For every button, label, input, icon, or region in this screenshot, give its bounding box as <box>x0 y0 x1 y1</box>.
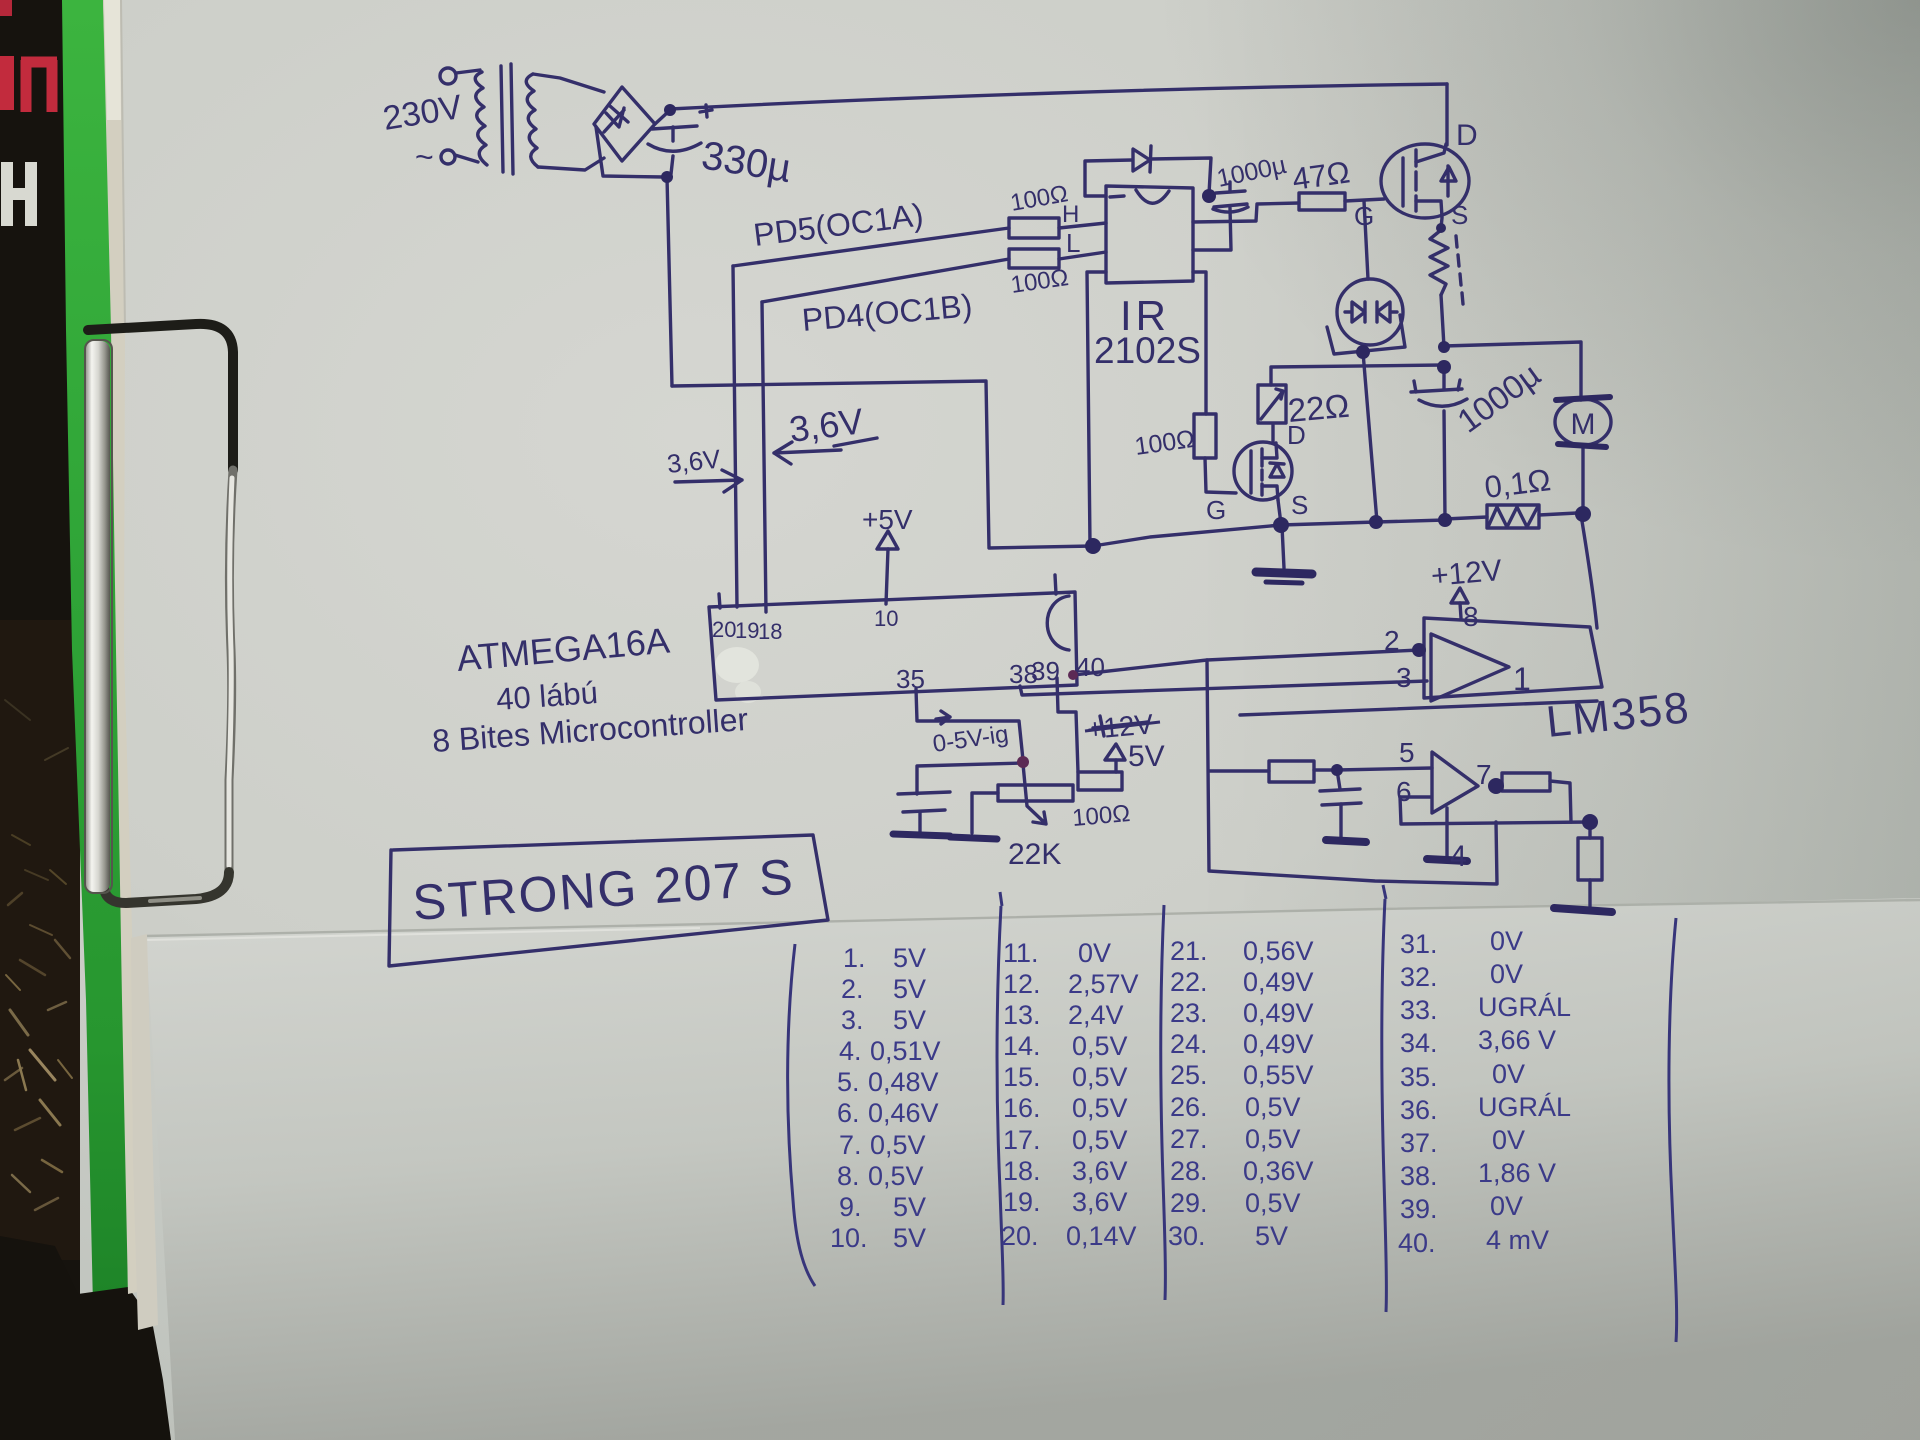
svg-text:9.: 9. <box>839 1192 862 1222</box>
svg-text:1.: 1. <box>843 943 866 973</box>
svg-text:5V: 5V <box>893 1223 926 1253</box>
svg-text:3.: 3. <box>841 1005 864 1035</box>
svg-text:1: 1 <box>1513 661 1531 697</box>
svg-text:4 mV: 4 mV <box>1486 1225 1549 1255</box>
svg-text:36.: 36. <box>1400 1095 1438 1125</box>
svg-text:34.: 34. <box>1400 1028 1438 1058</box>
svg-text:0V: 0V <box>1492 1125 1525 1155</box>
svg-text:100Ω: 100Ω <box>1071 800 1131 832</box>
svg-text:39: 39 <box>1031 656 1060 686</box>
svg-text:3,66 V: 3,66 V <box>1478 1025 1556 1055</box>
svg-text:3,6V: 3,6V <box>1072 1187 1128 1217</box>
svg-text:40: 40 <box>1076 652 1105 682</box>
svg-text:28.: 28. <box>1170 1156 1208 1186</box>
svg-text:0,49V: 0,49V <box>1243 998 1314 1028</box>
svg-text:21.: 21. <box>1170 936 1208 966</box>
svg-text:2: 2 <box>1384 625 1400 656</box>
svg-text:2102S: 2102S <box>1094 330 1201 371</box>
svg-text:H: H <box>1062 201 1079 228</box>
svg-text:11.: 11. <box>1003 938 1039 968</box>
svg-text:31.: 31. <box>1400 929 1438 959</box>
svg-text:5.: 5. <box>837 1067 860 1097</box>
svg-text:0V: 0V <box>1490 959 1523 989</box>
svg-text:3,6V: 3,6V <box>1072 1156 1128 1186</box>
svg-text:5V: 5V <box>893 943 926 973</box>
svg-text:2,57V: 2,57V <box>1068 969 1139 999</box>
svg-text:18.: 18. <box>1003 1156 1041 1186</box>
svg-text:5V: 5V <box>893 974 926 1004</box>
svg-text:4.: 4. <box>839 1036 862 1066</box>
svg-text:6.: 6. <box>837 1098 860 1128</box>
svg-text:0,5V: 0,5V <box>1072 1125 1128 1155</box>
svg-text:5V: 5V <box>1255 1221 1288 1251</box>
svg-text:0,36V: 0,36V <box>1243 1156 1314 1186</box>
svg-text:35: 35 <box>896 664 925 694</box>
svg-text:40.: 40. <box>1398 1228 1436 1258</box>
svg-text:0,5V: 0,5V <box>1245 1092 1301 1122</box>
svg-text:+5V: +5V <box>862 504 913 535</box>
svg-text:0,14V: 0,14V <box>1066 1221 1137 1251</box>
svg-text:14.: 14. <box>1003 1031 1041 1061</box>
svg-text:G: G <box>1354 201 1374 231</box>
svg-text:12.: 12. <box>1003 969 1041 999</box>
svg-text:39.: 39. <box>1400 1194 1438 1224</box>
svg-text:0,5V: 0,5V <box>1072 1093 1128 1123</box>
svg-text:G: G <box>1206 495 1226 525</box>
svg-text:0,49V: 0,49V <box>1243 967 1314 997</box>
svg-text:+12V: +12V <box>1430 554 1504 593</box>
svg-text:0,5V: 0,5V <box>1072 1062 1128 1092</box>
svg-text:UGRÁL: UGRÁL <box>1478 1092 1571 1122</box>
svg-text:0,56V: 0,56V <box>1243 936 1314 966</box>
svg-text:M: M <box>1571 408 1596 441</box>
svg-text:0,55V: 0,55V <box>1243 1060 1314 1090</box>
svg-text:0,51V: 0,51V <box>870 1036 941 1066</box>
svg-text:L: L <box>1066 228 1080 258</box>
svg-text:3: 3 <box>1396 662 1412 693</box>
svg-text:D: D <box>1456 119 1478 152</box>
svg-text:5V: 5V <box>1128 740 1165 773</box>
svg-text:3,6V: 3,6V <box>665 443 722 478</box>
svg-text:~: ~ <box>415 139 434 175</box>
svg-text:S: S <box>1451 200 1468 230</box>
svg-text:0V: 0V <box>1078 938 1111 968</box>
svg-text:0,5V: 0,5V <box>1072 1031 1128 1061</box>
svg-text:10.: 10. <box>830 1223 868 1253</box>
svg-text:0,5V: 0,5V <box>870 1130 926 1160</box>
svg-text:18: 18 <box>758 619 782 644</box>
svg-text:6: 6 <box>1396 776 1412 807</box>
svg-text:30.: 30. <box>1168 1221 1206 1251</box>
svg-text:0V: 0V <box>1490 926 1523 956</box>
svg-text:27.: 27. <box>1170 1124 1208 1154</box>
svg-text:24.: 24. <box>1170 1029 1208 1059</box>
svg-text:2.: 2. <box>841 974 864 1004</box>
svg-text:15.: 15. <box>1003 1062 1041 1092</box>
svg-text:37.: 37. <box>1400 1128 1438 1158</box>
svg-text:22.: 22. <box>1170 967 1208 997</box>
svg-text:25.: 25. <box>1170 1060 1208 1090</box>
svg-text:16.: 16. <box>1003 1093 1041 1123</box>
svg-text:0,48V: 0,48V <box>868 1067 939 1097</box>
svg-text:10: 10 <box>874 606 898 631</box>
svg-text:7: 7 <box>1476 759 1492 790</box>
svg-text:13.: 13. <box>1003 1000 1041 1030</box>
svg-text:33.: 33. <box>1400 995 1438 1025</box>
svg-text:0V: 0V <box>1490 1191 1523 1221</box>
svg-text:0V: 0V <box>1492 1059 1525 1089</box>
svg-text:0,5V: 0,5V <box>1245 1188 1301 1218</box>
svg-text:5V: 5V <box>893 1192 926 1222</box>
svg-text:17.: 17. <box>1003 1125 1041 1155</box>
svg-text:UGRÁL: UGRÁL <box>1478 992 1571 1022</box>
svg-text:20.: 20. <box>1001 1221 1039 1251</box>
svg-text:8.: 8. <box>837 1161 860 1191</box>
svg-text:22Ω: 22Ω <box>1286 387 1350 429</box>
svg-text:20: 20 <box>712 617 736 642</box>
svg-text:0,5V: 0,5V <box>868 1161 924 1191</box>
svg-text:0,5V: 0,5V <box>1245 1124 1301 1154</box>
svg-text:1,86 V: 1,86 V <box>1478 1158 1556 1188</box>
svg-text:22K: 22K <box>1008 838 1061 871</box>
svg-text:5: 5 <box>1399 737 1415 768</box>
svg-text:35.: 35. <box>1400 1062 1438 1092</box>
svg-text:4: 4 <box>1450 840 1467 873</box>
svg-text:40 lábú: 40 lábú <box>495 675 599 717</box>
svg-text:38.: 38. <box>1400 1161 1438 1191</box>
svg-text:2,4V: 2,4V <box>1068 1000 1124 1030</box>
svg-text:19: 19 <box>735 618 759 643</box>
svg-text:26.: 26. <box>1170 1092 1208 1122</box>
svg-text:7.: 7. <box>839 1130 862 1160</box>
svg-text:29.: 29. <box>1170 1188 1208 1218</box>
svg-text:0,46V: 0,46V <box>868 1098 939 1128</box>
svg-text:8: 8 <box>1463 601 1479 632</box>
svg-text:19.: 19. <box>1003 1187 1041 1217</box>
svg-text:0,49V: 0,49V <box>1243 1029 1314 1059</box>
svg-text:5V: 5V <box>893 1005 926 1035</box>
svg-text:32.: 32. <box>1400 962 1438 992</box>
svg-text:23.: 23. <box>1170 998 1208 1028</box>
svg-text:S: S <box>1291 490 1308 520</box>
